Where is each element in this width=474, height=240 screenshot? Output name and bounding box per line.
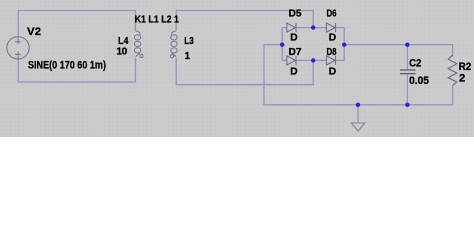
- capacitor C2: [400, 70, 416, 74]
- wire secondary top: L3 top to bridge node X: [176, 11, 313, 32]
- wire secondary bottom: L3 bottom to bridge node Y: [176, 58, 313, 85]
- svg-text:D7: D7: [289, 47, 302, 58]
- junction node Y (D7-D8): [311, 58, 315, 62]
- resistor R2: [448, 55, 457, 86]
- ground: [351, 123, 365, 131]
- wire R2 bottom lead: [452, 86, 454, 105]
- diode D8: [326, 56, 335, 65]
- wire C2 column: [406, 45, 408, 70]
- svg-text:D: D: [329, 67, 336, 78]
- svg-text:K1 L1 L2 1: K1 L1 L2 1: [135, 15, 180, 26]
- diode D7: [287, 56, 296, 65]
- junction DC plus rail: [342, 43, 346, 47]
- wire D5 row: [282, 27, 287, 29]
- svg-text:L3: L3: [184, 36, 194, 47]
- schematic background: [0, 0, 474, 137]
- diode D6: [326, 23, 335, 32]
- inductor L4 (primary): [134, 31, 143, 58]
- wire DC minus: left rail to bottom bus: [264, 45, 453, 105]
- wire DC plus bus: right rail to R2 top: [344, 45, 452, 57]
- wire ground stem: [357, 105, 359, 123]
- svg-text:D: D: [290, 32, 297, 43]
- svg-text:D: D: [329, 32, 336, 43]
- svg-text:R2: R2: [459, 61, 472, 73]
- wire bridge right rail: [343, 28, 345, 61]
- voltage source V2: [7, 37, 29, 59]
- junction C2 bottom: [405, 103, 409, 107]
- svg-text:SINE(0 170 60 1m): SINE(0 170 60 1m): [28, 59, 106, 71]
- svg-text:0.05: 0.05: [409, 75, 429, 87]
- junction node X (D5-D6): [311, 25, 315, 29]
- svg-text:C2: C2: [409, 57, 421, 69]
- svg-text:V2: V2: [27, 26, 41, 38]
- wire D8 row: [313, 59, 326, 61]
- wire D7 row: [282, 59, 287, 61]
- diode D5: [287, 23, 296, 32]
- svg-text:D5: D5: [289, 9, 302, 20]
- wire primary top: V2 top to L4 top: [18, 11, 135, 41]
- svg-text:D8: D8: [327, 47, 337, 58]
- svg-text:1: 1: [185, 51, 191, 62]
- junction C2 top: [405, 43, 409, 47]
- wire primary bottom: V2 bottom to L4 bottom: [18, 56, 135, 82]
- junction DC minus rail: [280, 43, 284, 47]
- svg-text:D6: D6: [327, 9, 337, 20]
- inductor L3 (secondary): [170, 31, 177, 58]
- junction ground node: [356, 103, 360, 107]
- svg-text:D: D: [290, 67, 297, 78]
- svg-text:L4: L4: [118, 36, 129, 47]
- svg-text:10: 10: [116, 46, 127, 57]
- svg-text:2: 2: [459, 73, 465, 85]
- wire D6 row: [313, 27, 326, 29]
- wire bridge left rail: [281, 28, 283, 61]
